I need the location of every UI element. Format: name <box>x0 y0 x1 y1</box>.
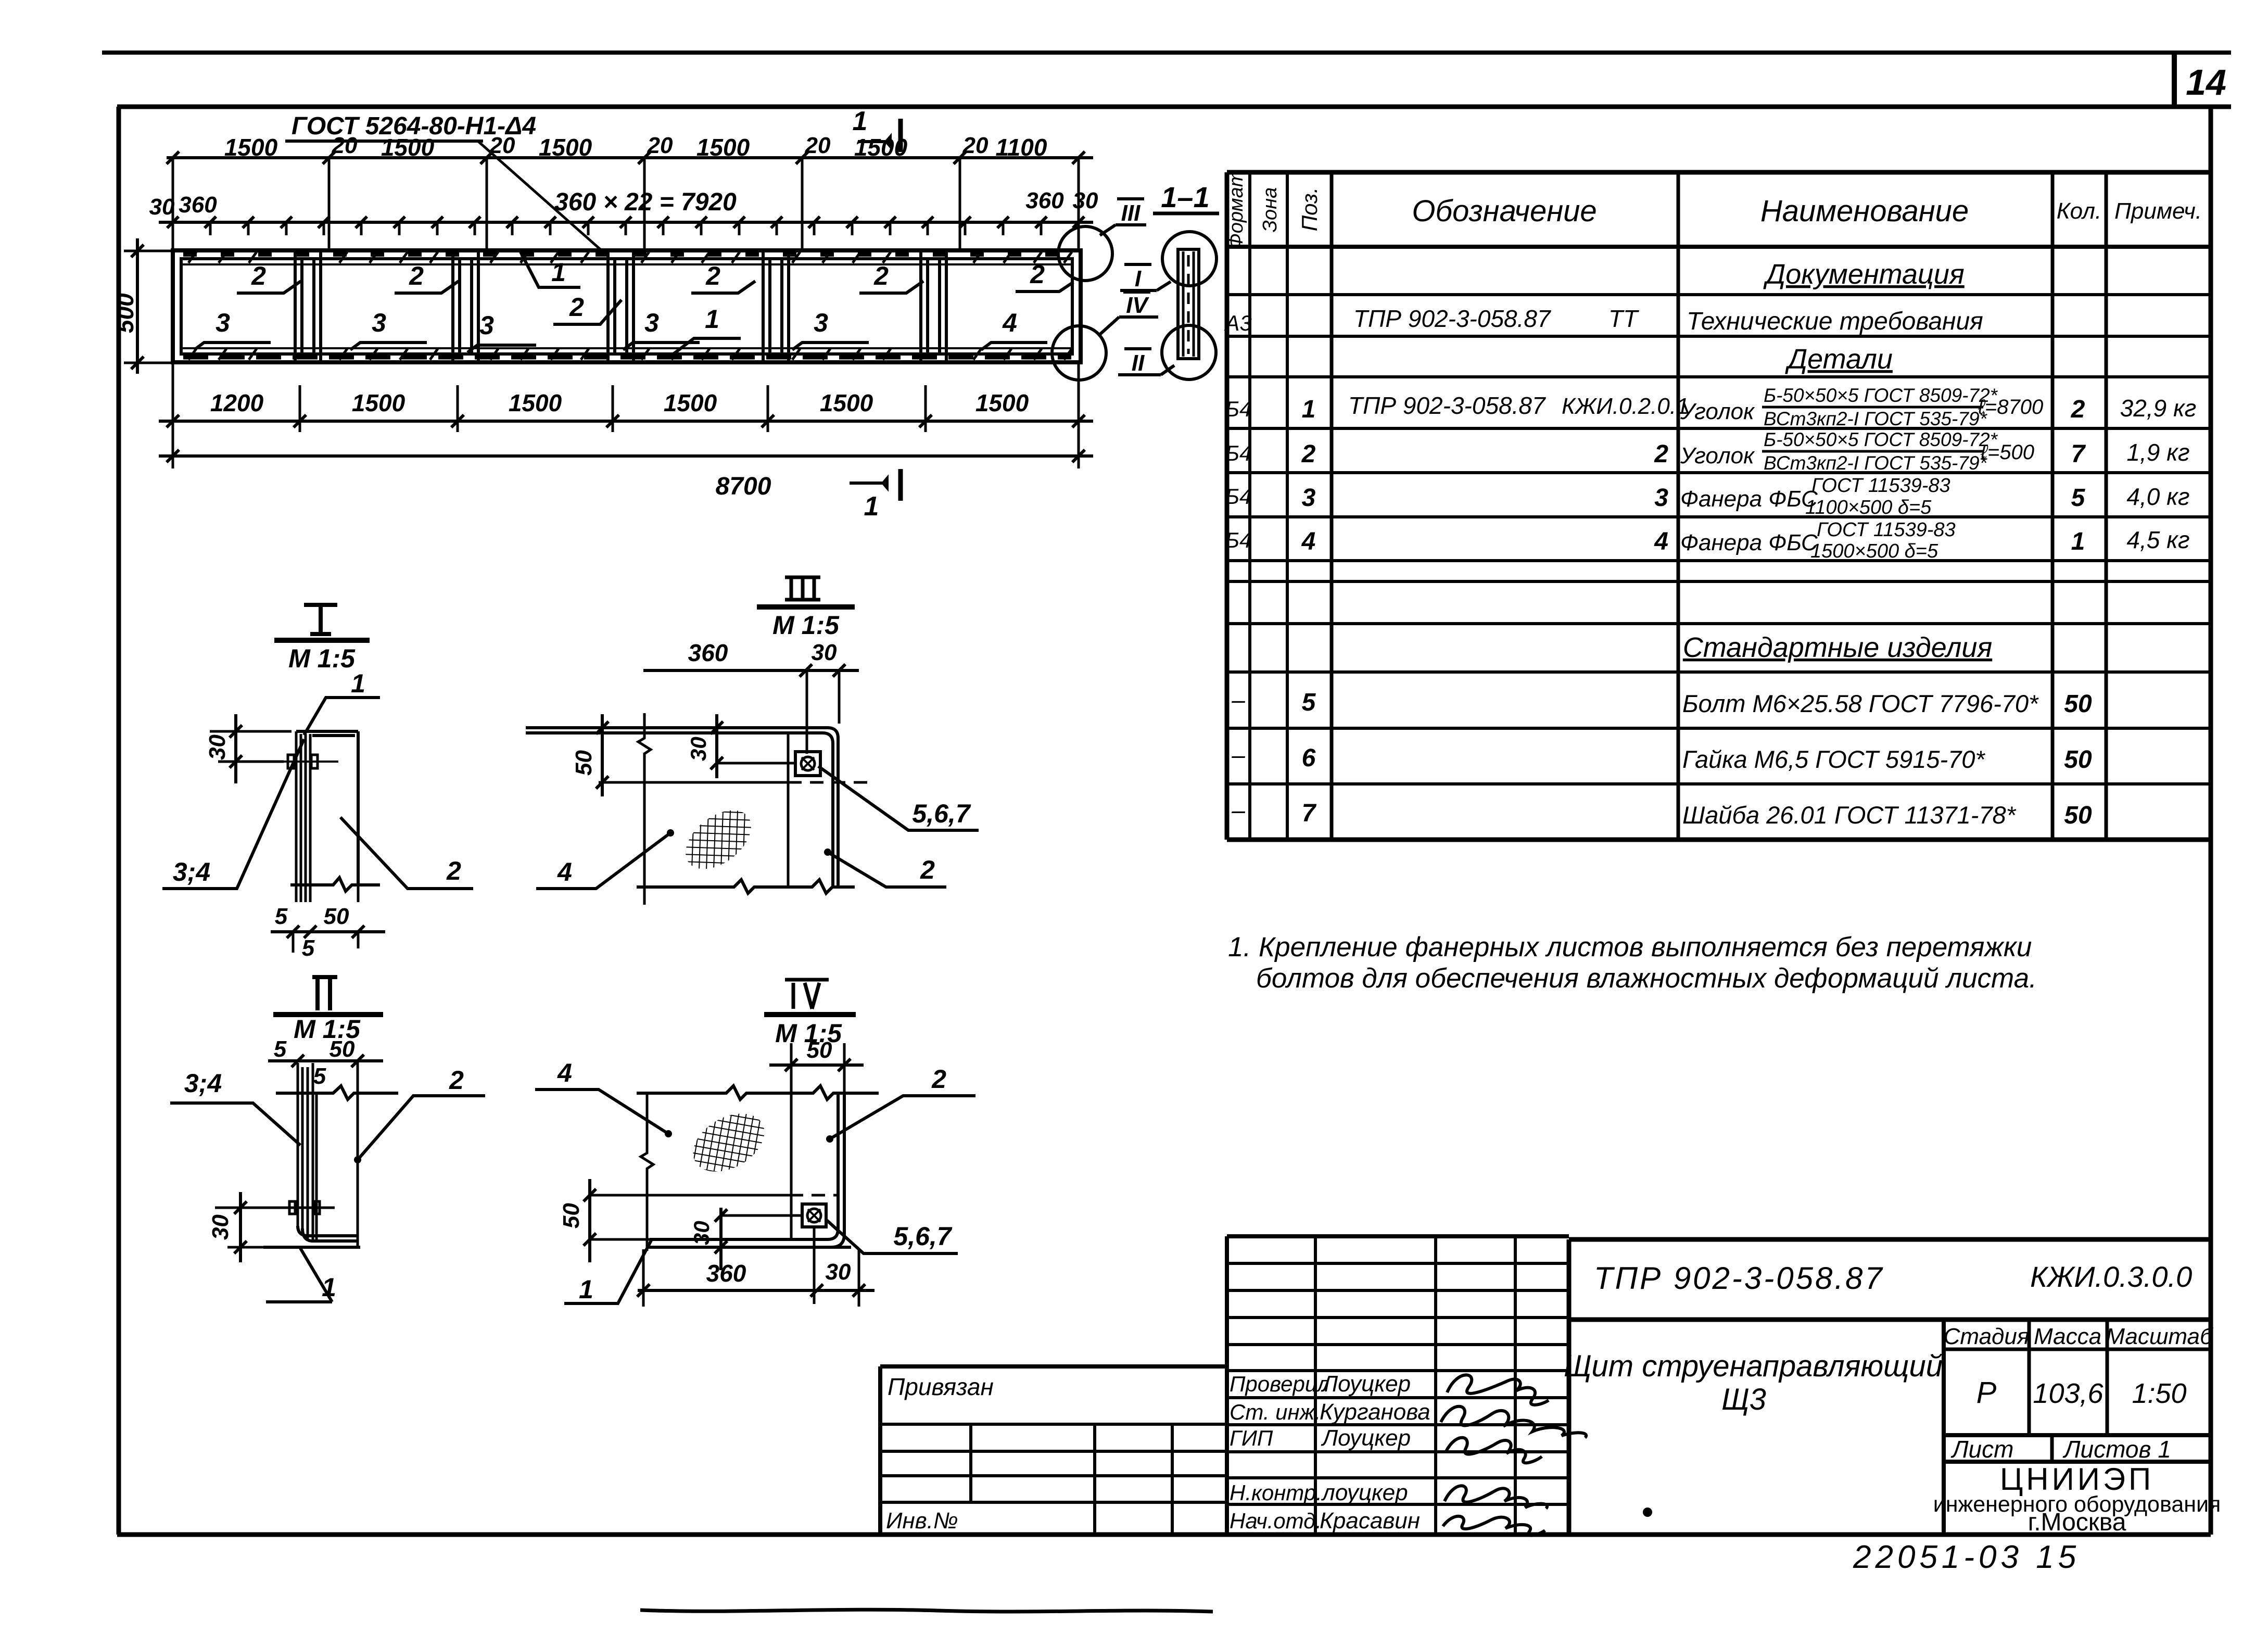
spec table column line Oboznachenie <box>1677 172 1680 840</box>
detail I callout 3;4 leader <box>162 739 304 889</box>
svg-text:1500: 1500 <box>539 134 592 161</box>
svg-text:3: 3 <box>216 308 230 337</box>
svg-text:–: – <box>1231 796 1245 824</box>
panel divider 2 <box>453 251 478 361</box>
svg-text:3: 3 <box>644 308 659 337</box>
svg-text:1,9 кг: 1,9 кг <box>2126 439 2189 466</box>
svg-text:Кол.: Кол. <box>2057 198 2101 224</box>
svg-text:Б-50×50×5 ГОСТ 8509-72*: Б-50×50×5 ГОСТ 8509-72* <box>1764 429 1998 450</box>
page top rule <box>102 50 2231 55</box>
svg-text:КЖИ.0.3.0.0: КЖИ.0.3.0.0 <box>2030 1260 2192 1293</box>
svg-text:ГОСТ 11539-83: ГОСТ 11539-83 <box>1817 519 1956 541</box>
detail I sheet stack verticals <box>296 731 310 885</box>
svg-text:ВСт3кп2-I ГОСТ 535-79*: ВСт3кп2-I ГОСТ 535-79* <box>1764 452 1988 474</box>
total dimension line 8700 <box>159 454 1093 458</box>
svg-text:30: 30 <box>1073 188 1098 213</box>
cell label 3 underline (cell 1) <box>194 343 271 350</box>
svg-text:1500: 1500 <box>509 389 562 416</box>
svg-text:360: 360 <box>688 639 728 666</box>
svg-text:3: 3 <box>814 308 828 337</box>
svg-text:Щит струенаправляющий: Щит струенаправляющий <box>1564 1349 1943 1383</box>
detail III callout 2 leader dot <box>824 848 831 856</box>
svg-text:50: 50 <box>559 1203 584 1228</box>
spec table row line 3 <box>1227 375 2211 378</box>
svg-text:50: 50 <box>324 904 349 929</box>
svg-text:4: 4 <box>557 1058 572 1087</box>
panel divider 4 <box>763 251 789 361</box>
detail II angle bottom flange <box>298 1226 358 1241</box>
svg-text:III: III <box>1121 200 1141 226</box>
svg-text:4: 4 <box>1002 308 1017 337</box>
svg-text:1:50: 1:50 <box>2132 1378 2186 1409</box>
detail IV left sheet edge with break <box>641 1093 653 1251</box>
panel sheet bottom edge line <box>181 347 1072 349</box>
detail III bottom break line <box>637 880 855 893</box>
svg-text:1200: 1200 <box>210 389 264 416</box>
section view 1-1 circle top <box>1162 232 1217 286</box>
svg-text:3: 3 <box>372 308 386 337</box>
svg-text:болтов для обеспечения влаж: болтов для обеспечения влажностных дефор… <box>1256 963 2037 994</box>
svg-text:Стадия: Стадия <box>1944 1324 2030 1349</box>
svg-text:6: 6 <box>1302 744 1316 772</box>
svg-text:Наименование: Наименование <box>1760 194 1969 228</box>
svg-text:2: 2 <box>449 1066 464 1095</box>
svg-text:5: 5 <box>274 1036 287 1062</box>
title block dot <box>1643 1508 1652 1517</box>
signature squiggle 2 <box>1441 1407 1586 1438</box>
svg-text:1: 1 <box>351 669 365 698</box>
svg-text:3;4: 3;4 <box>184 1069 222 1098</box>
svg-text:ЦНИИЭП: ЦНИИЭП <box>2000 1462 2154 1497</box>
svg-text:Б4: Б4 <box>1225 397 1252 421</box>
detail IV callout 4 leader <box>535 1090 668 1134</box>
svg-text:4: 4 <box>1301 528 1316 555</box>
signature squiggle 3 <box>1446 1438 1542 1463</box>
svg-text:30: 30 <box>812 640 837 665</box>
svg-text:1: 1 <box>864 491 879 522</box>
svg-text:ГОСТ 11539-83: ГОСТ 11539-83 <box>1811 475 1950 497</box>
detail III left cut line <box>638 713 651 905</box>
signature squiggle 4 <box>1445 1486 1547 1509</box>
spec table column line Zona <box>1286 172 1289 840</box>
svg-text:Б4: Б4 <box>1225 528 1252 552</box>
panel divider 1 <box>295 251 321 361</box>
svg-text:1500: 1500 <box>696 134 750 161</box>
detail III callout 4 leader <box>536 833 670 889</box>
section view 1-1 label underline <box>1153 212 1219 216</box>
spec table outer border <box>1227 172 2211 840</box>
bottom dimension line cells <box>159 364 1093 468</box>
svg-text:КЖИ.0.2.0.1: КЖИ.0.2.0.1 <box>1562 394 1689 419</box>
svg-text:5: 5 <box>1302 689 1316 716</box>
detail II top dim line <box>268 1055 383 1067</box>
detail IV callout 2 leader dot <box>826 1135 833 1143</box>
spec table row line 8 <box>1227 580 2211 583</box>
svg-text:50: 50 <box>571 750 597 776</box>
svg-text:Нач.отд.: Нач.отд. <box>1230 1509 1322 1533</box>
total dim ticks <box>167 450 1085 462</box>
cell label 4 underline (cell 6) <box>981 343 1047 350</box>
svg-text:2: 2 <box>1030 260 1045 289</box>
cell label 2 underline+leader (cell 4) <box>691 281 755 293</box>
svg-text:II: II <box>1132 350 1145 376</box>
detail III section symbol <box>757 577 855 607</box>
signature block row lines <box>1227 1263 1569 1504</box>
svg-text:Зона: Зона <box>1259 187 1281 233</box>
svg-text:50: 50 <box>807 1037 832 1063</box>
svg-text:2: 2 <box>251 261 266 290</box>
panel weld hatch ticks bottom band <box>188 349 1072 360</box>
detail I callout 2 leader <box>340 817 473 889</box>
svg-text:г.Москва: г.Москва <box>2028 1509 2126 1536</box>
signature block outline <box>1227 1236 1569 1535</box>
svg-text:8700: 8700 <box>716 473 771 500</box>
svg-text:ТПР 902-3-058.87: ТПР 902-3-058.87 <box>1348 392 1546 419</box>
title block stage table left vertical <box>1942 1320 1946 1535</box>
svg-text:ГОСТ 5264-80-Н1-Δ4: ГОСТ 5264-80-Н1-Δ4 <box>292 112 536 140</box>
detail III dim 30 vertical <box>711 714 795 778</box>
svg-text:3: 3 <box>1302 484 1316 512</box>
detail III sheet 2 inner vertical <box>787 733 790 887</box>
svg-text:Примеч.: Примеч. <box>2114 198 2202 224</box>
height dim extension bottom <box>124 362 172 364</box>
svg-text:Гайка М6,5 ГОСТ 5915-70*: Гайка М6,5 ГОСТ 5915-70* <box>1682 745 1985 773</box>
svg-text:1: 1 <box>705 305 719 334</box>
cell label 2 underline+leader (cell 1) <box>237 281 301 293</box>
svg-text:лоуцкер: лоуцкер <box>1321 1480 1408 1505</box>
height dim ticks <box>131 245 144 369</box>
svg-text:Б4: Б4 <box>1225 441 1252 465</box>
title block line under designation <box>1569 1318 2211 1322</box>
panel divider 3 <box>608 251 633 361</box>
svg-text:Поз.: Поз. <box>1297 187 1322 232</box>
detail II sheet 2 edge <box>315 1093 318 1241</box>
weld designation leader <box>478 141 608 256</box>
svg-text:Лист: Лист <box>1950 1436 2013 1463</box>
detail IV bolt <box>802 1204 826 1227</box>
svg-text:IV: IV <box>1126 293 1149 318</box>
svg-text:ℓ=8700: ℓ=8700 <box>1978 396 2043 419</box>
detail III callout 5,6,7 leader <box>818 766 979 830</box>
spec table row line 6 <box>1227 515 2211 518</box>
svg-text:Фанера ФБС: Фанера ФБС <box>1680 530 1818 555</box>
detail II bottom edge <box>263 1246 360 1249</box>
detail IV callout 1 leader <box>564 1240 651 1303</box>
svg-text:–: – <box>1231 741 1245 768</box>
svg-text:2: 2 <box>1301 440 1316 468</box>
svg-text:20: 20 <box>962 133 989 158</box>
svg-text:Красавин: Красавин <box>1320 1508 1420 1534</box>
svg-text:ТТ: ТТ <box>1608 305 1639 332</box>
detail II callout 1 leader <box>266 1248 332 1302</box>
spec table column line Formad <box>1248 172 1251 840</box>
svg-text:4: 4 <box>557 857 572 886</box>
svg-text:1500: 1500 <box>664 389 717 416</box>
svg-text:5: 5 <box>2071 484 2086 512</box>
spec row 1 fraction bar <box>1762 406 1983 409</box>
detail III top dim line <box>643 664 859 754</box>
bottom dim extension verticals <box>173 364 1079 468</box>
detail III callout 4 leader dot <box>667 829 674 837</box>
cell label 3 underline (cell 3) <box>467 345 536 352</box>
detail II dim 30 <box>215 1192 335 1262</box>
svg-text:ТПР 902-3-058.87: ТПР 902-3-058.87 <box>1353 305 1551 332</box>
svg-text:ГИП: ГИП <box>1230 1426 1273 1450</box>
title block main outline <box>1569 1239 2211 1535</box>
svg-text:50: 50 <box>2064 746 2092 774</box>
svg-text:2: 2 <box>569 293 584 322</box>
svg-text:Технические требования: Технические требования <box>1687 308 1983 335</box>
svg-text:50: 50 <box>330 1036 355 1062</box>
spec table row line 5 <box>1227 471 2211 474</box>
svg-text:1: 1 <box>2071 528 2085 555</box>
spec table row line 9 <box>1227 622 2211 625</box>
attachment block row lines <box>880 1424 1227 1502</box>
svg-text:1–1: 1–1 <box>1161 181 1209 213</box>
detail III hatched patch <box>675 799 762 881</box>
svg-text:14: 14 <box>2186 62 2226 103</box>
bottom dim oblique ticks <box>167 415 1085 427</box>
svg-text:Формат: Формат <box>1225 171 1247 249</box>
svg-text:360: 360 <box>179 192 217 218</box>
svg-text:Б4: Б4 <box>1225 484 1252 509</box>
spec table row line 4 <box>1227 427 2211 430</box>
svg-text:4: 4 <box>1654 528 1668 555</box>
detail II bolt <box>289 1201 320 1214</box>
spec table row line 1 <box>1227 293 2211 296</box>
detail IV flange top dashed <box>790 1194 838 1197</box>
svg-text:22051-03 15: 22051-03 15 <box>1853 1539 2080 1575</box>
svg-text:Н.контр.: Н.контр. <box>1230 1480 1322 1505</box>
detail II callout 2 leader dot <box>354 1156 361 1163</box>
svg-text:Б-50×50×5 ГОСТ 8509-72*: Б-50×50×5 ГОСТ 8509-72* <box>1764 385 1998 406</box>
detail IV top break line <box>637 1086 879 1099</box>
svg-text:5: 5 <box>302 935 315 961</box>
detail IV callout 2 leader <box>830 1096 975 1139</box>
svg-text:30: 30 <box>205 734 230 760</box>
detail IV top dim 50 <box>769 1043 864 1093</box>
svg-text:5,6,7: 5,6,7 <box>912 799 971 828</box>
detail II callout 3;4 leader <box>170 1103 300 1145</box>
svg-text:Детали: Детали <box>1785 344 1893 375</box>
detail I bottom break line <box>290 878 380 891</box>
cell label 3 underline (cell 5) <box>792 343 869 350</box>
signature squiggle 1 <box>1447 1375 1549 1405</box>
svg-text:1500: 1500 <box>224 134 278 161</box>
detail II right extension vertical <box>357 1061 359 1247</box>
svg-text:500: 500 <box>111 293 138 333</box>
detail IV flange top edge <box>650 1194 790 1197</box>
module dim oblique ticks <box>167 217 1084 228</box>
detail II callout 2 leader <box>358 1096 485 1160</box>
top dim oblique ticks <box>167 151 1085 164</box>
cell label 2 underline+leader (cell 2) <box>395 281 459 293</box>
svg-text:3;4: 3;4 <box>173 857 210 886</box>
left height dimension 500 <box>124 238 172 374</box>
detail III dim 50 vertical <box>596 714 609 796</box>
spec table column line Naimenovanie <box>2051 172 2055 840</box>
svg-text:2: 2 <box>1654 440 1668 468</box>
svg-text:5: 5 <box>275 904 288 929</box>
height dim extension top <box>124 250 172 252</box>
title block List/Listov divider <box>2050 1435 2054 1462</box>
svg-text:ТПР 902-3-058.87: ТПР 902-3-058.87 <box>1594 1261 1884 1296</box>
svg-text:Уголок: Уголок <box>1680 399 1755 424</box>
detail I callout 1 leader <box>304 698 380 735</box>
svg-text:30: 30 <box>208 1214 233 1240</box>
svg-text:1: 1 <box>551 258 566 287</box>
svg-text:50: 50 <box>2064 802 2092 829</box>
section detail circle II (bottom right corner) <box>1052 326 1106 380</box>
svg-text:30: 30 <box>826 1259 851 1285</box>
svg-text:Масса: Масса <box>2034 1324 2101 1349</box>
svg-text:1500: 1500 <box>352 389 406 416</box>
title block line above List row <box>1944 1433 2211 1437</box>
weld designation underline <box>285 140 483 143</box>
svg-text:Проверил: Проверил <box>1230 1372 1329 1396</box>
svg-text:7: 7 <box>1302 800 1317 827</box>
cell label 2 underline+leader (cell 6) <box>1016 282 1073 292</box>
detail II top break line <box>276 1086 398 1099</box>
detail III top edge double line <box>526 728 838 887</box>
detail IV sheet 2 vertical <box>790 1093 793 1239</box>
spec table header bottom line <box>1227 245 2211 249</box>
spec table row line 12 <box>1227 782 2211 786</box>
svg-text:360: 360 <box>706 1260 746 1287</box>
module dim vertical dashes <box>173 222 1079 235</box>
detail II sheet stack verticals <box>298 1063 313 1241</box>
svg-text:Лоуцкер: Лоуцкер <box>1321 1425 1411 1451</box>
detail IV dim 50 left vertical <box>584 1179 651 1262</box>
bottom section mark 1 <box>850 469 901 501</box>
svg-text:2: 2 <box>931 1065 946 1094</box>
svg-text:4,5 кг: 4,5 кг <box>2126 526 2189 553</box>
svg-text:3: 3 <box>1654 484 1668 512</box>
detail II section symbol <box>273 977 383 1015</box>
svg-text:Уголок: Уголок <box>1680 443 1755 468</box>
detail I angle profile <box>296 731 358 885</box>
panel sheet top edge line <box>181 263 1072 265</box>
detail IV callout 5,6,7 leader <box>826 1220 958 1253</box>
svg-text:I: I <box>1135 266 1142 292</box>
svg-text:Обозначение: Обозначение <box>1412 194 1597 228</box>
detail IV angle profile <box>647 1093 844 1247</box>
top section mark 1 <box>858 119 901 152</box>
svg-text:2: 2 <box>446 856 461 885</box>
svg-text:32,9 кг: 32,9 кг <box>2120 395 2197 422</box>
signature block verticals <box>1315 1236 1515 1535</box>
cell label 1 underline+leader (cell 4) <box>668 338 741 358</box>
svg-text:М 1:5: М 1:5 <box>288 644 356 673</box>
bottom page smudge line <box>640 1610 1213 1612</box>
section detail circle III (top right corner) <box>1058 226 1112 281</box>
detail III flange bottom edge <box>599 781 788 784</box>
svg-text:5,6,7: 5,6,7 <box>893 1222 952 1251</box>
svg-text:50: 50 <box>2064 690 2092 718</box>
svg-text:Шайба 26.01 ГОСТ 11371-78*: Шайба 26.01 ГОСТ 11371-78* <box>1682 801 2017 829</box>
svg-text:Р: Р <box>1976 1376 1997 1410</box>
svg-text:1: 1 <box>853 106 868 136</box>
svg-text:7: 7 <box>2071 440 2086 468</box>
svg-text:360 × 22 = 7920: 360 × 22 = 7920 <box>554 188 737 216</box>
detail IV bottom dim line <box>637 1227 875 1307</box>
detail I bottom dim line <box>271 926 385 953</box>
svg-text:30: 30 <box>686 737 711 761</box>
attachment block outline <box>880 1366 1227 1535</box>
spec row 2 fraction bar <box>1762 450 1983 453</box>
svg-text:1: 1 <box>579 1275 593 1304</box>
svg-text:2: 2 <box>409 261 424 290</box>
svg-text:Ст. инж.: Ст. инж. <box>1230 1400 1321 1424</box>
top dimension line sheets <box>167 156 1093 159</box>
cell label 3 underline (cell 2) <box>350 343 427 350</box>
detail III flange dashed continuation <box>788 781 875 784</box>
svg-text:–: – <box>1231 686 1245 713</box>
svg-text:Лоуцкер: Лоуцкер <box>1321 1371 1411 1397</box>
svg-text:2: 2 <box>920 855 935 884</box>
svg-text:А3: А3 <box>1223 311 1251 335</box>
panel outer outline <box>173 250 1081 362</box>
panel top band ink <box>183 252 1071 257</box>
svg-text:М 1:5: М 1:5 <box>772 611 840 640</box>
svg-text:5: 5 <box>313 1063 326 1089</box>
svg-text:2: 2 <box>2071 396 2085 423</box>
cell label 2 underline+leader (cell 5) <box>859 281 923 293</box>
svg-text:Документация: Документация <box>1763 259 1964 290</box>
svg-text:2: 2 <box>705 261 720 290</box>
svg-text:Листов 1: Листов 1 <box>2062 1436 2171 1463</box>
svg-text:30: 30 <box>689 1221 714 1245</box>
svg-text:Масштаб: Масштаб <box>2106 1324 2214 1349</box>
svg-text:Привязан: Привязан <box>888 1373 994 1400</box>
svg-text:360: 360 <box>1025 188 1064 213</box>
svg-text:4,0 кг: 4,0 кг <box>2126 483 2189 510</box>
panel inner outline <box>181 259 1072 354</box>
detail IV section symbol <box>764 980 856 1015</box>
title block stage/mass/scale verticals <box>2029 1320 2107 1435</box>
detail I sheet tails below break <box>296 885 358 902</box>
title block stage header underline <box>1944 1348 2211 1351</box>
spec table row line 11 <box>1227 727 2211 730</box>
svg-text:Инв.№: Инв.№ <box>886 1508 958 1534</box>
svg-text:1: 1 <box>1302 396 1316 423</box>
svg-text:Курганова: Курганова <box>1320 1399 1430 1425</box>
detail I section symbol <box>274 605 370 640</box>
detail III callout 2 leader <box>828 852 946 887</box>
detail IV dim 30 vertical <box>715 1208 802 1270</box>
sheet number box divider <box>2172 53 2177 107</box>
svg-text:3: 3 <box>479 311 494 340</box>
svg-text:20: 20 <box>647 133 673 158</box>
svg-text:Болт М6×25.58 ГОСТ 7796-70*: Болт М6×25.58 ГОСТ 7796-70* <box>1682 690 2039 717</box>
svg-text:1500: 1500 <box>820 389 873 416</box>
svg-text:2: 2 <box>873 261 889 290</box>
panel weld hatch ticks top band <box>188 252 1072 263</box>
spec table column line Kol <box>2105 172 2108 840</box>
svg-text:1. Крепление фанерных листов: 1. Крепление фанерных листов выполняется… <box>1228 932 2032 962</box>
section view 1-1 bar <box>1178 249 1199 359</box>
title block line under List row <box>1944 1460 2211 1464</box>
spec table column line Poz <box>1330 172 1334 840</box>
module dimension line 360x22 <box>159 221 1093 224</box>
svg-text:ВСт3кп2-I ГОСТ 535-79*: ВСт3кп2-I ГОСТ 535-79* <box>1764 408 1988 429</box>
section view 1-1 circle bottom <box>1162 325 1216 379</box>
spec table row line 10 <box>1227 670 2211 674</box>
detail IV hatched patch <box>683 1101 775 1183</box>
signature squiggle 5 <box>1443 1516 1545 1536</box>
detail IV bottom edge extension <box>647 1246 851 1249</box>
cell label 3 underline (cell 4) <box>623 343 700 350</box>
